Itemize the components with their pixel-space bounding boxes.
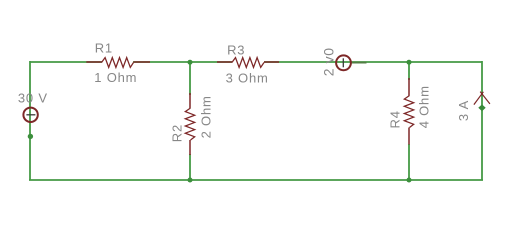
wire top-left segment [30,61,102,63]
voltage source V2 plus sign [342,58,344,67]
resistor R4 [404,78,413,145]
junction node R2 bottom [188,178,193,183]
svg-text:R4: R4 [387,110,402,128]
voltage source VS1 plus sign [26,114,35,116]
wire middle branch lower [189,154,191,180]
svg-text:3 A: 3 A [456,100,471,121]
wire middle branch upper [189,62,191,95]
voltage source V2 circle [336,55,351,70]
svg-text:2 v0: 2 v0 [320,47,336,76]
svg-text:30 V: 30 V [18,91,48,106]
svg-text:4 Ohm: 4 Ohm [417,85,432,128]
svg-text:R3: R3 [227,42,245,57]
wire top-middle segment [133,61,232,63]
resistor R1 [86,58,150,68]
current source IS1 arrow barbs [474,92,490,105]
junction node R4 top [407,60,412,65]
wire left branch [29,61,31,180]
current source IS1 diamond [478,104,485,111]
svg-text:R1: R1 [95,41,113,56]
svg-text:1 Ohm: 1 Ohm [94,70,137,85]
wire bottom [29,179,483,181]
resistor R2 [185,93,194,155]
svg-text:2 Ohm: 2 Ohm [198,95,213,138]
wire right branch [481,61,483,180]
resistor R3 [217,58,279,68]
junction node R4 bottom [407,178,412,183]
wire dark segment right of source V2 [352,62,367,64]
svg-text:3 Ohm: 3 Ohm [226,71,269,86]
voltage source VS1 circle [23,108,37,122]
voltage source VS1 terminal dot [28,134,33,139]
wire R4 branch lower [408,144,410,180]
wire top-right segment [264,61,482,63]
svg-text:R2: R2 [169,124,184,142]
junction node R1/R2/R3 top [188,60,193,65]
wire R4 branch upper [408,62,410,80]
